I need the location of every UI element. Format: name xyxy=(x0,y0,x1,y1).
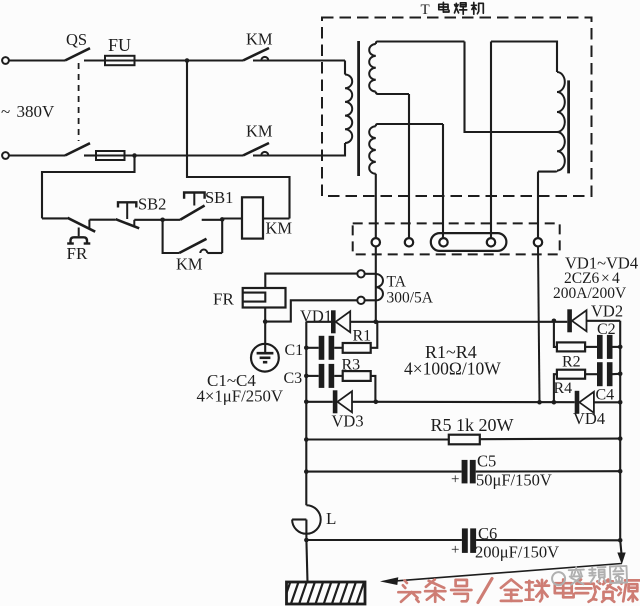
svg-text:R1: R1 xyxy=(353,328,372,345)
svg-text:VD2: VD2 xyxy=(591,301,623,320)
svg-text:+: + xyxy=(451,542,459,558)
svg-text:R4: R4 xyxy=(554,380,573,397)
svg-text:L: L xyxy=(326,509,336,528)
svg-text:C5: C5 xyxy=(477,452,496,471)
svg-text:300/5A: 300/5A xyxy=(387,290,434,307)
svg-text:~: ~ xyxy=(1,102,10,121)
svg-text:50μF/150V: 50μF/150V xyxy=(476,471,552,490)
svg-text:+: + xyxy=(451,472,459,488)
svg-text:FR: FR xyxy=(67,244,88,263)
svg-text:200A/200V: 200A/200V xyxy=(553,285,627,302)
svg-text:380V: 380V xyxy=(17,102,56,121)
svg-text:C6: C6 xyxy=(478,524,497,543)
svg-text:KM: KM xyxy=(246,30,273,49)
svg-text:KM: KM xyxy=(176,255,203,274)
svg-text:VD3: VD3 xyxy=(332,412,364,431)
svg-text:R3: R3 xyxy=(342,357,361,374)
svg-text:4×100Ω/10W: 4×100Ω/10W xyxy=(404,359,501,379)
svg-text:C2: C2 xyxy=(597,321,616,338)
svg-text:T: T xyxy=(421,2,430,18)
svg-text:VD4: VD4 xyxy=(573,409,605,428)
svg-text:FU: FU xyxy=(108,35,131,55)
svg-text:R2: R2 xyxy=(562,354,581,371)
svg-text:KM: KM xyxy=(266,219,293,238)
svg-text:200μF/150V: 200μF/150V xyxy=(475,543,559,562)
svg-text:C1: C1 xyxy=(285,342,304,359)
svg-text:TA: TA xyxy=(387,274,407,291)
svg-text:SB2: SB2 xyxy=(138,195,166,214)
svg-text:4×1μF/250V: 4×1μF/250V xyxy=(197,387,284,406)
svg-text:R5 1k 20W: R5 1k 20W xyxy=(431,415,514,435)
svg-text:FR: FR xyxy=(213,290,234,309)
svg-text:C3: C3 xyxy=(284,370,303,387)
svg-text:SB1: SB1 xyxy=(205,188,233,207)
svg-text:QS: QS xyxy=(66,30,87,49)
svg-text:VD1: VD1 xyxy=(300,306,332,325)
svg-text:KM: KM xyxy=(246,122,273,141)
svg-text:C4: C4 xyxy=(596,387,615,404)
